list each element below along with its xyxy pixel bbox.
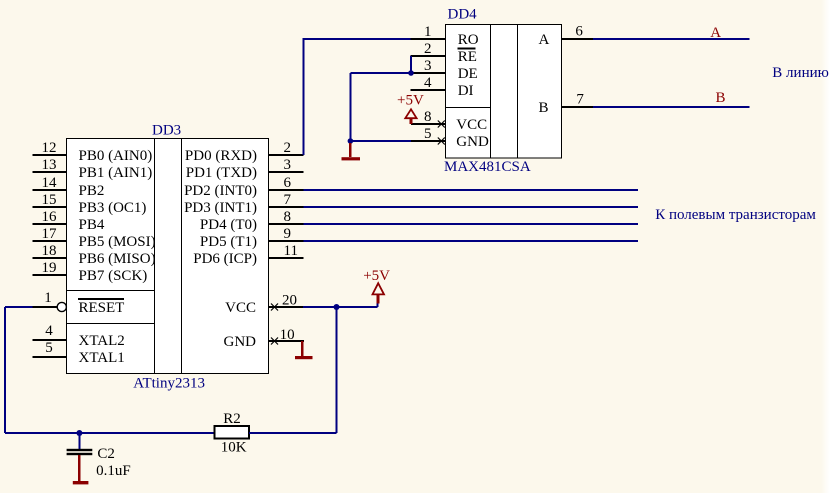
svg-text:PB6 (MISO): PB6 (MISO): [79, 251, 156, 267]
svg-text:3: 3: [284, 157, 292, 173]
svg-text:B: B: [539, 100, 549, 116]
svg-text:18: 18: [42, 243, 57, 259]
svg-text:A: A: [539, 32, 550, 48]
svg-text:R2: R2: [223, 411, 241, 427]
wire junction to DD4 GND pin5: [350, 140, 411, 142]
svg-text:К полевым транзисторам: К полевым транзисторам: [655, 207, 816, 223]
IC DD3 ATtiny2313 body: [67, 139, 269, 374]
DD3 pin 9 PD5 (T1): [200, 226, 304, 250]
svg-text:PD5 (T1): PD5 (T1): [200, 234, 257, 250]
svg-text:6: 6: [284, 175, 292, 191]
DD3 pin 8 PD4 (T0): [200, 209, 304, 233]
wire RO to PD0(RXD): net RXD: [303, 38, 410, 155]
svg-text:5: 5: [424, 126, 432, 142]
svg-text:RO: RO: [458, 32, 479, 48]
junction at C2: [76, 430, 82, 436]
DD3 pin 16 PB4: [33, 209, 105, 233]
svg-text:12: 12: [42, 140, 57, 156]
svg-text:PD1 (TXD): PD1 (TXD): [186, 165, 257, 181]
svg-text:16: 16: [42, 209, 58, 225]
+5V symbol at DD3 pin 20: [363, 268, 390, 304]
svg-text:VCC: VCC: [456, 117, 487, 133]
wire RESET net left: [5, 307, 33, 433]
svg-text:13: 13: [42, 157, 57, 173]
svg-text:GND: GND: [224, 334, 257, 350]
svg-text:GND: GND: [456, 134, 489, 150]
+5V symbol at DD4 pin 8: [397, 92, 424, 124]
svg-text:6: 6: [575, 24, 583, 40]
svg-text:RE: RE: [458, 49, 477, 65]
wire output B: [593, 106, 749, 108]
DD3 pin 6 PD2 (INT0): [184, 175, 303, 199]
IC DD4 MAX481CSA body: [446, 25, 562, 159]
svg-text:1: 1: [44, 290, 52, 306]
svg-text:15: 15: [42, 192, 57, 208]
wire VCC pin20 to +5V: [303, 303, 378, 307]
DD3 pin 1 RESET with inversion bubble: [33, 290, 125, 316]
DD4 pin 8 VCC: [411, 109, 487, 133]
svg-text:7: 7: [576, 92, 584, 108]
svg-text:+5V: +5V: [363, 268, 390, 284]
DD4 pin 5 GND: [411, 126, 489, 150]
DD4 pin 3 DE: [411, 58, 478, 82]
DD4 pin 6 output A: [539, 24, 594, 49]
svg-text:PB0 (AIN0): PB0 (AIN0): [79, 148, 153, 164]
svg-text:10K: 10K: [221, 439, 247, 455]
DD4 pin 2 RE: [411, 41, 477, 65]
wire PD3 to transistors: [304, 206, 639, 208]
svg-text:19: 19: [42, 260, 57, 276]
svg-text:DE: DE: [458, 66, 478, 82]
svg-text:PB3 (OC1): PB3 (OC1): [79, 200, 147, 216]
svg-text:8: 8: [424, 109, 432, 125]
wire PD2 to transistors: [304, 189, 639, 191]
svg-text:PD4 (T0): PD4 (T0): [200, 217, 257, 233]
svg-text:5: 5: [45, 340, 53, 356]
wire PD5 to transistors: [304, 240, 639, 242]
DD4 pin 4 DI: [411, 75, 474, 99]
svg-text:20: 20: [282, 292, 297, 308]
svg-text:11: 11: [284, 243, 298, 259]
DD3 pin 5 XTAL1: [33, 340, 125, 366]
svg-text:PD3 (INT1): PD3 (INT1): [184, 200, 257, 216]
svg-text:PD0 (RXD): PD0 (RXD): [185, 148, 257, 164]
DD3 pin 11 PD6 (ICP): [193, 243, 303, 267]
wire PD4 to transistors: [304, 223, 639, 225]
ground symbol near DD4: [342, 143, 361, 160]
wire output A: [593, 38, 749, 40]
DD3 pin 19 PB7 (SCK): [33, 260, 148, 284]
svg-text:C2: C2: [97, 446, 115, 462]
DD3 pin 12 PB0 (AIN0): [33, 140, 153, 164]
junction at GND rail: [348, 138, 354, 144]
svg-text:17: 17: [42, 226, 58, 242]
svg-text:DI: DI: [458, 83, 474, 99]
ground symbol at C2: [73, 455, 89, 484]
capacitor C2: [67, 433, 131, 479]
DD3 pin 15 PB3 (OC1): [33, 192, 147, 216]
svg-text:RESET: RESET: [79, 300, 125, 316]
DD4 pin 1 RO: [411, 24, 479, 48]
svg-text:XTAL2: XTAL2: [79, 333, 125, 349]
svg-text:1: 1: [424, 24, 432, 40]
svg-text:В линию: В линию: [772, 65, 829, 81]
junction VCC net: [334, 304, 340, 310]
svg-text:+5V: +5V: [397, 92, 424, 108]
svg-text:DD4: DD4: [448, 7, 478, 23]
DD3 pin 13 PB1 (AIN1): [33, 157, 153, 181]
wire RE to DE junction: [408, 56, 414, 76]
svg-text:0.1uF: 0.1uF: [96, 463, 131, 479]
svg-text:14: 14: [42, 175, 58, 191]
wire R2 to VCC junction: [249, 432, 337, 434]
svg-text:DD3: DD3: [152, 123, 181, 139]
wire DE junction to ground rail: [350, 73, 411, 141]
svg-text:2: 2: [284, 140, 292, 156]
svg-text:4: 4: [45, 323, 53, 339]
resistor R2: [215, 411, 250, 455]
svg-text:ATtiny2313: ATtiny2313: [133, 376, 205, 392]
svg-text:PB7 (SCK): PB7 (SCK): [79, 268, 148, 284]
ground symbol at DD3 pin 10: [295, 341, 313, 359]
svg-text:2: 2: [424, 41, 432, 57]
DD3 pin 4 XTAL2: [33, 323, 125, 349]
DD3 pin 17 PB5 (MOSI): [33, 226, 156, 250]
svg-text:PB5 (MOSI): PB5 (MOSI): [79, 234, 156, 250]
svg-text:A: A: [710, 25, 721, 41]
svg-text:10: 10: [280, 327, 295, 343]
DD3 pin 14 PB2: [33, 175, 105, 199]
svg-text:PB4: PB4: [79, 217, 105, 233]
DD3 pin 10 GND: [224, 327, 305, 350]
svg-text:MAX481CSA: MAX481CSA: [444, 159, 531, 175]
DD3 pin 3 PD1 (TXD): [186, 157, 304, 181]
svg-text:3: 3: [424, 58, 432, 74]
svg-text:9: 9: [284, 226, 292, 242]
svg-text:PD2 (INT0): PD2 (INT0): [184, 183, 257, 199]
DD3 pin 2 PD0 (RXD): [185, 140, 304, 164]
DD3 pin 7 PD3 (INT1): [184, 192, 303, 216]
DD4 pin 7 output B: [539, 92, 594, 117]
wire bottom rail to R2: [5, 432, 214, 434]
DD3 pin 18 PB6 (MISO): [33, 243, 156, 267]
svg-text:VCC: VCC: [225, 300, 256, 316]
svg-text:PD6 (ICP): PD6 (ICP): [193, 251, 257, 267]
svg-text:4: 4: [424, 75, 432, 91]
wire VCC junction down to R2: [336, 307, 338, 433]
svg-text:8: 8: [284, 209, 292, 225]
svg-text:7: 7: [284, 192, 292, 208]
svg-text:XTAL1: XTAL1: [79, 350, 125, 366]
DD3 pin 20 VCC: [225, 292, 303, 316]
svg-text:PB1 (AIN1): PB1 (AIN1): [79, 165, 153, 181]
svg-text:PB2: PB2: [79, 183, 105, 199]
svg-text:B: B: [716, 90, 726, 106]
